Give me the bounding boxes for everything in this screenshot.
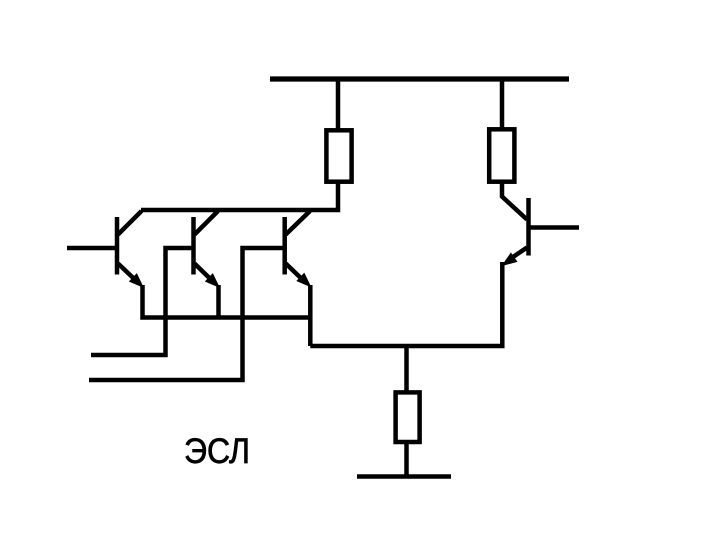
wire rail to R2 — [500, 77, 505, 130]
resistor R3 (tail) — [396, 392, 420, 442]
wire input A — [67, 246, 117, 251]
wire rail to R1 — [336, 77, 341, 131]
svg-text:ЭСЛ: ЭСЛ — [184, 432, 250, 471]
resistor R1 (left load) — [326, 130, 351, 181]
wire R3 to ground — [404, 442, 409, 478]
wire R1 bottom to collector rail — [141, 182, 338, 210]
transistor VT4 — [502, 198, 529, 266]
wire lower emitter bus to VT4 emitter — [310, 262, 502, 346]
wire VT4 base (reference input) — [529, 225, 580, 230]
wire VT1 emitter to common emitter bus — [143, 285, 311, 318]
resistor R2 (right load) — [489, 129, 514, 181]
wire input B — [91, 248, 194, 355]
ground — [357, 474, 451, 479]
wire power rail (top) — [270, 76, 569, 81]
transistor VT1 — [117, 211, 144, 288]
wire tail node to R3 — [404, 344, 409, 392]
transistor VT3 — [285, 211, 312, 288]
transistor VT2 — [194, 211, 221, 288]
wire R2 bottom to VT4 collector — [502, 182, 527, 220]
wire VT3 emitter down to lower bus — [308, 285, 313, 346]
wire input C — [89, 248, 285, 380]
wire VT2 emitter drop — [216, 285, 221, 318]
